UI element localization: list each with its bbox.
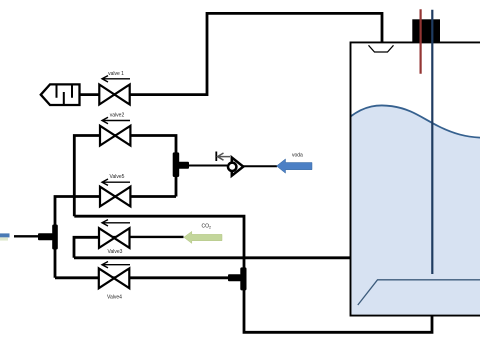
valve V2 [100,126,130,146]
stop symbol arrow [218,153,231,160]
check valve circle [228,163,236,171]
valve V5 arrow [102,179,130,185]
tank T1 water fill [351,105,480,314]
valve V3 [99,228,130,248]
wire valve4 line [55,276,240,279]
tank T1 water surface [351,105,480,137]
node tee junction left [38,225,58,250]
sample port green stub [0,237,8,240]
wire water inlet after check valve [243,165,277,167]
valve V4 arrow [102,262,130,268]
svg-text:voda: voda [292,153,303,159]
valve V1 [99,85,129,105]
svg-text:valve 1: valve 1 [108,71,124,77]
stop symbol bar [215,152,217,162]
red electrode [420,9,422,74]
node tee junction water loop [173,152,189,177]
sensor block on tank [412,19,440,42]
wire valve2 loop [74,136,176,217]
valve V1 arrow [102,76,130,82]
CO2 arrow [184,231,222,243]
svg-text:CO2: CO2 [202,224,212,230]
svg-text:Valve5: Valve5 [110,174,125,180]
node tee junction valve4 [228,267,247,290]
wire vent line valve1 to tank top [79,13,382,94]
valve V5 [100,187,130,207]
wire loop bottom to right vertical [74,216,432,332]
check valve triangle [232,158,244,176]
valve V4 [99,268,130,288]
wire water inlet line [189,165,227,167]
voda arrow [277,159,313,173]
sample port blue stub [0,233,10,237]
svg-text:valve2: valve2 [110,113,125,119]
valve V3 arrow [102,220,130,226]
funnel inside tank [369,45,394,52]
svg-text:Valve4: Valve4 [107,295,122,301]
wire return line to tank [74,256,351,259]
wire main vertical with valve5 branch [55,197,176,278]
muffler silencer [41,84,80,105]
wire valve3 inlet CO2 line [130,236,184,238]
valve V2 arrow [102,117,130,123]
sparger tube inside tank [358,280,480,305]
svg-text:Valve3: Valve3 [108,249,123,255]
blue electrode [431,10,433,274]
wire valve3 left elbow [74,237,130,257]
wire stub to sample point [14,235,40,237]
tank T1 outline [351,42,480,315]
